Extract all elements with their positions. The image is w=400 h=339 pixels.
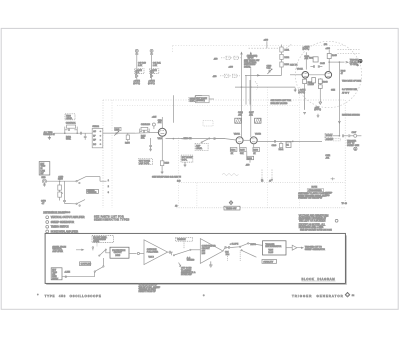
svg-text:STABILITY: STABILITY [263, 260, 274, 263]
svg-text:TIMING SWITCH: TIMING SWITCH [51, 227, 69, 229]
diode D41 [150, 74, 152, 77]
svg-text:COUPLING: COUPLING [81, 264, 92, 266]
output row capacitor C347 [343, 134, 349, 137]
timing switch label box [224, 206, 240, 210]
svg-text:TRIG RATE OF RISE: TRIG RATE OF RISE [342, 80, 362, 83]
note text trigger input [244, 55, 259, 68]
svg-text:(DCPL): (DCPL) [314, 109, 321, 111]
svg-text:RISETIME 15NSEC: RISETIME 15NSEC [342, 114, 360, 116]
coupling cap after follower [168, 251, 173, 256]
svg-text:→ NEG ON: → NEG ON [181, 138, 192, 140]
ground below J150 [43, 183, 46, 186]
block diagram shadow [46, 235, 346, 284]
second switch arm lower [241, 250, 256, 258]
svg-text:INPUT: INPUT [52, 278, 59, 280]
capacitor C40 [135, 54, 138, 80]
node circle after protection [129, 252, 144, 254]
svg-text:SEE IMPORTANT NOTE ON PAGE: SEE IMPORTANT NOTE ON PAGE [300, 229, 332, 232]
bus wire at 87 [235, 86, 295, 88]
svg-text:DIRECT FROM CF: DIRECT FROM CF [139, 291, 157, 293]
resistor R150 [58, 181, 62, 200]
ground symbol below V114 cathode [161, 172, 164, 174]
dashed arc top [285, 44, 293, 49]
plate output wire [329, 61, 348, 63]
shield corner stub [172, 46, 174, 54]
svg-text:NOTE: NOTE [312, 187, 318, 189]
trig level dashed label mid [203, 121, 213, 127]
resistor R138 [253, 148, 260, 152]
ground symbol at input [48, 136, 51, 140]
shield dashed vertical V135 right [299, 87, 301, 208]
resistor R344C [312, 78, 316, 83]
ext horiz dcpl dashed box 2 [181, 155, 193, 162]
wire ext trig to switch [62, 272, 94, 276]
grid wire V135A [225, 139, 236, 140]
supply dashed wire [249, 47, 280, 49]
svg-text:VERTICAL OUTPUT AMPLIFIER: VERTICAL OUTPUT AMPLIFIER [51, 216, 85, 219]
svg-text:SEMICONDUCTOR TYPES: SEMICONDUCTOR TYPES [94, 219, 130, 222]
wire into V145A [290, 74, 302, 76]
amp level dashed label box [195, 143, 208, 150]
triode V114 [158, 128, 166, 136]
switch SW150 upper contact [76, 177, 86, 184]
svg-text:TIME/DIV: TIME/DIV [177, 239, 186, 241]
dashed riser stub B [271, 170, 273, 181]
cathode wire V114 [160, 136, 163, 172]
capacitor C115 [149, 138, 152, 147]
supply wire from +100 [266, 41, 268, 48]
trigger multivibrator box [263, 241, 287, 255]
svg-text:AMP DCPL: AMP DCPL [139, 162, 150, 165]
output coupling C140 [274, 140, 275, 143]
svg-text:NORM: NORM [326, 135, 332, 137]
cathode resistor R341 [303, 78, 315, 97]
shield boundary second dashed wire [117, 105, 300, 107]
potentiometer arrow [62, 192, 63, 193]
junction nodes on output row [339, 135, 340, 136]
svg-text:LEVEL: LEVEL [196, 148, 203, 150]
svg-text:FOLLOWER: FOLLOWER [147, 252, 159, 254]
svg-text:+LINE: +LINE [64, 272, 70, 274]
sweep dashed label box [189, 97, 208, 101]
svg-text:1.5K: 1.5K [153, 65, 158, 67]
svg-text:TP 48: TP 48 [342, 203, 348, 205]
stability box [262, 260, 277, 264]
dashed rows top right [338, 50, 361, 54]
dashed stub below caps [226, 256, 228, 262]
comparator triangle [200, 239, 223, 264]
small terminal dot [357, 65, 358, 66]
svg-text:0.2 V/NSEC MIN: 0.2 V/NSEC MIN [342, 89, 358, 91]
svg-text:+ SLOPE: + SLOPE [230, 243, 239, 245]
protection circuit box [110, 247, 129, 258]
arrow on trigger wire [338, 121, 340, 123]
grid riser V145A [305, 52, 307, 69]
twin tube plate riser 2 [250, 53, 252, 55]
block diagram frame [45, 233, 345, 283]
screen cap C114 [152, 123, 155, 129]
svg-text:(TRIGGERED): (TRIGGERED) [308, 190, 322, 192]
sweep trigger out wire [300, 140, 322, 142]
pickoff switch arm [173, 249, 200, 256]
junction node trigger [339, 62, 340, 63]
triode V135A [236, 137, 243, 144]
svg-text:SEE WAVEFORMS 14B AND 75: SEE WAVEFORMS 14B AND 75 [152, 176, 182, 179]
plate supply wire V114 [161, 117, 163, 128]
shield boundary top dashed wire [103, 99, 345, 101]
ground symbol below C115 [149, 147, 152, 152]
capacitor C137 on riser [249, 112, 252, 113]
svg-text:MAG: MAG [325, 194, 330, 197]
svg-text:V24 B: V24 B [148, 257, 154, 259]
timing switch dotted wire upper [179, 182, 345, 184]
long vertical trigger wire [338, 62, 340, 136]
screen symbol dark [359, 59, 362, 62]
shield dashed vertical at switch [196, 183, 198, 208]
svg-text:LEVEL: LEVEL [66, 118, 73, 120]
gate input terminal J40 [135, 49, 138, 53]
shield dashed vertical V135 left [267, 87, 269, 208]
capacitor C136 on riser [240, 112, 243, 113]
trig level dashed label box [65, 114, 75, 120]
dashed link below slope switch [239, 250, 241, 261]
dashed label box sweep B [325, 137, 333, 140]
switch arm SWP [201, 138, 210, 143]
ground symbol at timing switch [229, 201, 233, 205]
shield left dashed wire [102, 100, 104, 208]
svg-text:SEE: SEE [331, 90, 336, 92]
slope switch [232, 243, 249, 248]
svg-text:SW102: SW102 [92, 126, 99, 128]
wire through wafer [103, 132, 135, 134]
resistor R190 zigzag on dashed net [222, 173, 239, 175]
output note text [347, 140, 360, 146]
source switch arm [99, 249, 110, 256]
signal from vertical text [52, 245, 66, 252]
twin tube plate riser 1 [241, 53, 243, 138]
capacitor C152 [63, 181, 66, 203]
svg-text:DCPL: DCPL [190, 101, 196, 103]
lower switch contacts [94, 258, 104, 272]
variable capacitor C105 [114, 127, 121, 135]
ref item 3 circled numeral [46, 225, 49, 228]
source switch contact [92, 247, 94, 251]
ground top right of tubes [294, 88, 297, 92]
diamond revision mark [345, 292, 350, 297]
svg-text:SIGNALS IN: SIGNALS IN [43, 133, 55, 136]
caption underline [302, 280, 336, 282]
svg-text:SWEEP GENERATOR: SWEEP GENERATOR [305, 248, 326, 251]
svg-text:EXCEPT AS NOTED, ALL: EXCEPT AS NOTED, ALL [299, 223, 326, 226]
svg-text:READINGS ARE +-20%: READINGS ARE +-20% [299, 226, 324, 229]
note paragraph [298, 192, 328, 200]
svg-text:DCPL: DCPL [182, 160, 188, 162]
node label +GATE IN dashed box [135, 69, 144, 74]
ground below tube1 branch [303, 98, 306, 115]
wire into V114 grid [135, 131, 159, 134]
svg-text:TIMING SW: TIMING SW [226, 208, 237, 210]
svg-text:MULTIVIBRATOR: MULTIVIBRATOR [265, 245, 281, 248]
node circle on input wire [65, 276, 67, 278]
sweep trigger label box [87, 189, 99, 193]
resistor R345 [327, 54, 331, 72]
dashed shield circle around output tubes [295, 41, 361, 107]
output terminal circle [354, 134, 362, 137]
series caps after comparator [223, 246, 232, 251]
svg-text:(SWEEP): (SWEEP) [196, 100, 205, 102]
input selector legend box [39, 162, 50, 175]
svg-text:DETAIL: DETAIL [244, 65, 252, 68]
shield left inner dashed wire [111, 100, 113, 208]
ref item 2 circled numeral [46, 221, 49, 224]
gate input terminal J41 [150, 49, 153, 53]
node label +GATE IN 2 dashed box [149, 69, 158, 74]
cathode follower triangle [144, 240, 168, 265]
svg-text:500K: 500K [66, 139, 71, 141]
tick on shield [331, 177, 335, 180]
aux out text block [181, 268, 196, 277]
plate supply wire V145B [328, 50, 330, 54]
circled mark in notes [335, 219, 338, 222]
arrow to sweep generator text [297, 247, 303, 249]
dashed link time div [183, 241, 185, 248]
svg-text:SWEEP: SWEEP [326, 139, 334, 141]
resistor R137 hatched [255, 118, 261, 123]
resistor R142 box [286, 142, 291, 148]
resistor R136 hatched [235, 118, 241, 123]
wire between tubes [243, 139, 250, 141]
note boxed label [307, 189, 324, 192]
wire from J150 [47, 180, 77, 182]
notes paragraph [299, 214, 329, 229]
wire from ext horiz box [209, 98, 214, 100]
wire to multivibrator [249, 243, 263, 245]
parallel RC C101/R101 [65, 125, 77, 133]
svg-text:AMPLIFIER: AMPLIFIER [52, 250, 63, 253]
heading underline [43, 213, 65, 215]
svg-text:SWEEP GEN: SWEEP GEN [347, 145, 360, 147]
resistor R141 [279, 141, 285, 150]
cathode common wire [240, 144, 254, 156]
faint text rows mid shield [271, 99, 292, 105]
svg-text:(DCPL): (DCPL) [298, 92, 305, 94]
switch SW150 lower arm [65, 200, 86, 207]
resistor R105 vertical [126, 133, 129, 141]
ground below comparator [209, 261, 213, 267]
diode D40 [136, 74, 138, 77]
junction node [59, 181, 60, 182]
svg-text:GATING: GATING [187, 259, 195, 262]
resistor R135 [240, 148, 247, 152]
ext trig input box [51, 268, 62, 280]
trigger coupling switch wafer [92, 128, 103, 147]
triode V145B [325, 72, 332, 79]
ext horiz sweep box [196, 96, 210, 103]
shield dashed vertical right [344, 100, 346, 203]
svg-text:BLOCK DIAGRAM: BLOCK DIAGRAM [302, 277, 336, 281]
svg-text:(DCPL): (DCPL) [148, 83, 155, 85]
resistor stack R131 [280, 45, 283, 76]
dashed curl arc [255, 82, 258, 90]
junction nodes risers [241, 87, 242, 88]
svg-text:SWEEP GENERATOR: SWEEP GENERATOR [51, 221, 75, 224]
resistor R134 [230, 148, 237, 152]
ref item 4 circled numeral [46, 230, 49, 233]
variable capacitor C130 [267, 69, 272, 74]
dashed label under output row [333, 138, 340, 141]
main trigger signal wire [54, 132, 135, 134]
junction node B [77, 133, 78, 134]
junction wire at x334 [333, 135, 339, 137]
svg-text:TRIGGER: TRIGGER [87, 192, 97, 194]
buffer triangle out [286, 245, 297, 250]
capacitor C103 [80, 132, 81, 135]
coupling label box [80, 262, 91, 266]
triode V145A [302, 72, 309, 79]
wire switch to shield [86, 176, 100, 178]
svg-text:1.5K: 1.5K [138, 65, 143, 67]
ground below [317, 114, 320, 118]
dashed link level to switch [96, 243, 98, 247]
trigger out text [305, 247, 326, 251]
junction node plate [173, 138, 174, 139]
svg-text:VOLTAGE AND WAVEFORM: VOLTAGE AND WAVEFORM [299, 214, 329, 217]
ref item 1 circled numeral [46, 216, 49, 219]
triode V135B [250, 137, 257, 144]
trigger output text [350, 60, 362, 66]
ground below ext horiz [184, 162, 187, 167]
triggering level dashed box [92, 236, 114, 243]
output row capacitor C348 [349, 134, 354, 137]
grid wire with arrow [245, 75, 282, 77]
svg-text:THE LEFT OF A SCREEN: THE LEFT OF A SCREEN [299, 220, 326, 223]
faint waveform note rows [331, 80, 362, 117]
svg-text:(DCPL): (DCPL) [133, 83, 140, 85]
shield boundary upper dashed wire [173, 45, 346, 47]
svg-text:V135B: V135B [255, 134, 262, 136]
cathode resistor R343 [318, 78, 328, 88]
svg-text:V135A: V135A [234, 133, 241, 136]
shield mid dashed wire [178, 138, 180, 208]
coupling network between tubes [309, 57, 326, 75]
svg-text:TRIGGER GENERATOR: TRIGGER GENERATOR [292, 294, 344, 298]
arrow down to aux text [179, 263, 181, 267]
junction node A [64, 133, 65, 134]
dashed label box sweep A [325, 133, 333, 136]
circled ref 2 [354, 147, 357, 150]
time div dashed box [176, 237, 193, 241]
input connector J150 [42, 179, 46, 183]
svg-text:TYPE 453 OSCILLOSCOPE: TYPE 453 OSCILLOSCOPE [45, 294, 102, 298]
plate wire V114 to right [166, 138, 226, 140]
arrow into source switch [76, 249, 83, 251]
capacitor C104 vertical [84, 133, 87, 140]
dashed divider chain upper [221, 56, 241, 59]
resistor R139 [247, 156, 254, 162]
parallel RC C113/R113 [140, 127, 150, 133]
junction node out [292, 141, 293, 142]
riser arrowheads [241, 53, 252, 55]
svg-text:EARLIER VALUES: EARLIER VALUES [271, 102, 289, 105]
note text below box [139, 284, 161, 293]
dashed riser stub A [261, 170, 263, 181]
svg-text:V344A: V344A [297, 68, 304, 71]
timing switch dotted wire lower [177, 207, 346, 209]
svg-text:SEE PARTS LIST FOR: SEE PARTS LIST FOR [271, 99, 292, 102]
svg-text:READINGS OBTAINED AT: READINGS OBTAINED AT [299, 217, 327, 220]
svg-text:HORIZ AMP: HORIZ AMP [181, 273, 193, 276]
ext horiz dashed label box [139, 159, 153, 165]
plate riser wires down [245, 75, 247, 104]
svg-text:PRESENT ON THE INPUT: PRESENT ON THE INPUT [298, 198, 323, 200]
sweep dcpl wire vertical [172, 95, 174, 123]
capacitor C41 [150, 54, 153, 80]
plate wire V135B to right [257, 140, 300, 142]
dashed divider chain lower [220, 74, 240, 77]
svg-text:1 MEG: 1 MEG [308, 84, 315, 86]
svg-text:AT 30 V: AT 30 V [342, 91, 350, 94]
coupling capacitor C120 [214, 137, 225, 140]
tunnel diode D345 [319, 88, 322, 104]
